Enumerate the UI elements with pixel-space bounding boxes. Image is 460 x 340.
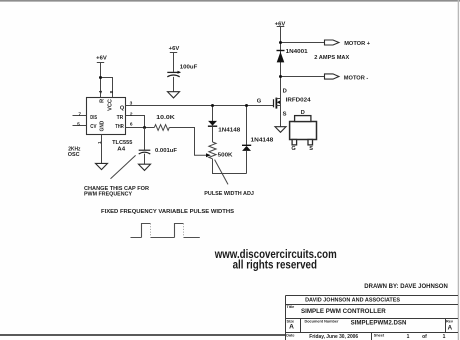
svg-text:Friday, June 30, 2006: Friday, June 30, 2006 <box>309 334 358 340</box>
svg-text:Document Number: Document Number <box>305 320 339 324</box>
svg-text:of: of <box>422 334 427 340</box>
svg-text:A4: A4 <box>117 146 126 152</box>
svg-text:Sheet: Sheet <box>374 334 385 338</box>
svg-text:1: 1 <box>443 334 446 340</box>
svg-text:+6V: +6V <box>275 21 286 27</box>
svg-text:SIMPLE PWM CONTROLLER: SIMPLE PWM CONTROLLER <box>301 308 386 315</box>
svg-text:Date: Date <box>286 333 294 337</box>
svg-text:Title: Title <box>287 305 295 309</box>
svg-text:10.0K: 10.0K <box>156 115 175 121</box>
svg-text:2 AMPS MAX: 2 AMPS MAX <box>314 55 349 61</box>
svg-text:S: S <box>283 111 287 117</box>
svg-text:+6V: +6V <box>169 46 180 52</box>
svg-text:A: A <box>448 324 453 331</box>
svg-text:R: R <box>100 99 106 103</box>
svg-text:TLC555: TLC555 <box>112 140 133 146</box>
svg-text:SIMPLEPWM2.DSN: SIMPLEPWM2.DSN <box>351 319 407 326</box>
svg-text:TR: TR <box>117 115 124 121</box>
svg-text:OSC: OSC <box>68 152 81 158</box>
svg-text:Rev: Rev <box>446 319 454 323</box>
svg-text:THR: THR <box>115 124 124 130</box>
svg-text:all rights reserved: all rights reserved <box>233 258 317 272</box>
svg-text:1: 1 <box>97 141 103 144</box>
svg-text:500K: 500K <box>218 152 234 158</box>
svg-text:FIXED FREQUENCY VARIABLE PULSE: FIXED FREQUENCY VARIABLE PULSE WIDTHS <box>101 209 234 215</box>
svg-text:MOTOR +: MOTOR + <box>344 41 370 47</box>
svg-text:PULSE WIDTH ADJ: PULSE WIDTH ADJ <box>204 191 254 197</box>
svg-text:D: D <box>283 89 287 95</box>
svg-text:VCC: VCC <box>107 99 113 111</box>
svg-text:1N4001: 1N4001 <box>286 49 309 55</box>
svg-text:G: G <box>291 146 295 152</box>
svg-text:0.001uF: 0.001uF <box>155 148 177 154</box>
svg-text:6: 6 <box>130 122 133 128</box>
svg-text:2: 2 <box>130 112 133 118</box>
svg-text:Q: Q <box>120 105 125 111</box>
svg-text:PWM FREQUENCY: PWM FREQUENCY <box>84 191 132 197</box>
svg-text:MOTOR -: MOTOR - <box>344 76 369 82</box>
svg-text:5: 5 <box>77 122 80 128</box>
svg-text:A: A <box>289 323 294 330</box>
svg-text:S: S <box>309 146 313 152</box>
svg-text:7: 7 <box>78 112 81 118</box>
svg-text:DRAWN BY: DAVE JOHNSON: DRAWN BY: DAVE JOHNSON <box>364 284 448 290</box>
svg-text:1N4148: 1N4148 <box>218 128 241 134</box>
svg-text:GND: GND <box>100 121 106 132</box>
svg-text:100uF: 100uF <box>180 64 198 70</box>
svg-text:3: 3 <box>130 100 133 106</box>
svg-text:+6V: +6V <box>96 55 107 61</box>
svg-text:1N4148: 1N4148 <box>251 138 275 144</box>
svg-text:DIS: DIS <box>90 115 97 121</box>
svg-text:CV: CV <box>90 124 96 130</box>
svg-text:D: D <box>301 110 305 116</box>
svg-text:G: G <box>257 98 262 104</box>
svg-text:8: 8 <box>109 90 115 93</box>
svg-text:Size: Size <box>287 320 295 324</box>
svg-text:IRFD024: IRFD024 <box>286 98 312 104</box>
svg-text:1: 1 <box>407 334 410 340</box>
svg-text:DAVID JOHNSON AND ASSOCIATES: DAVID JOHNSON AND ASSOCIATES <box>305 298 400 304</box>
svg-text:4: 4 <box>98 90 104 93</box>
